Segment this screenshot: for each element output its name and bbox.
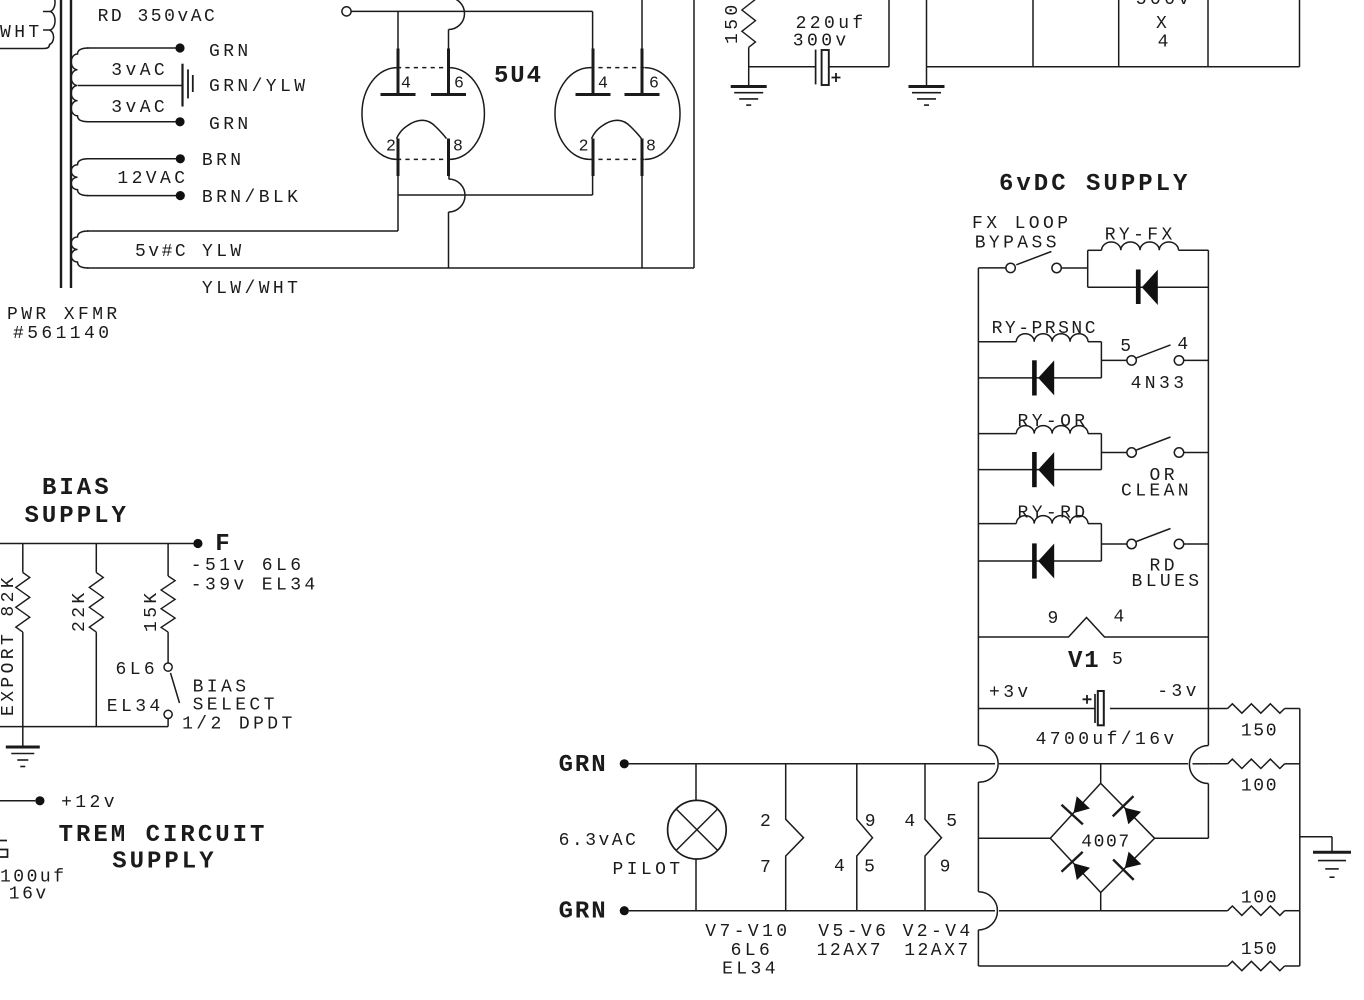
svg-text:SELECT: SELECT xyxy=(193,696,278,716)
svg-text:9: 9 xyxy=(1048,609,1062,629)
svg-text:FX LOOP: FX LOOP xyxy=(972,214,1071,234)
svg-text:GRN: GRN xyxy=(209,115,252,135)
svg-text:6.3vAC: 6.3vAC xyxy=(559,831,639,851)
svg-text:-51v 6L6: -51v 6L6 xyxy=(191,556,305,576)
svg-text:2: 2 xyxy=(579,137,589,156)
svg-text:V1: V1 xyxy=(1068,648,1101,675)
svg-text:-39v EL34: -39v EL34 xyxy=(191,576,319,596)
svg-text:YLW: YLW xyxy=(202,242,245,262)
svg-text:9: 9 xyxy=(940,858,954,878)
svg-text:4: 4 xyxy=(1158,33,1172,53)
svg-text:9: 9 xyxy=(865,812,879,832)
svg-text:V5-V6: V5-V6 xyxy=(818,922,889,942)
svg-text:5: 5 xyxy=(864,858,878,878)
svg-text:EL34: EL34 xyxy=(722,960,779,980)
svg-text:EXPORT 82K: EXPORT 82K xyxy=(0,574,19,716)
svg-text:16v: 16v xyxy=(9,885,49,905)
svg-text:V7-V10: V7-V10 xyxy=(705,922,790,942)
svg-text:4: 4 xyxy=(598,74,608,93)
svg-text:4: 4 xyxy=(401,74,411,93)
svg-text:3vAC: 3vAC xyxy=(111,61,168,81)
svg-text:8: 8 xyxy=(646,137,656,156)
svg-text:TREM CIRCUIT: TREM CIRCUIT xyxy=(59,822,268,849)
svg-text:6vDC SUPPLY: 6vDC SUPPLY xyxy=(999,171,1190,198)
svg-text:5v#C: 5v#C xyxy=(135,242,188,262)
svg-text:SUPPLY: SUPPLY xyxy=(25,503,129,530)
svg-text:12AX7: 12AX7 xyxy=(904,941,971,961)
svg-text:12VAC: 12VAC xyxy=(117,169,188,189)
svg-text:8: 8 xyxy=(453,137,463,156)
svg-text:BRN/BLK: BRN/BLK xyxy=(202,188,301,208)
svg-text:GRN: GRN xyxy=(209,42,252,62)
svg-text:100: 100 xyxy=(1241,889,1278,909)
svg-text:100: 100 xyxy=(1241,777,1278,797)
svg-text:-3v: -3v xyxy=(1157,682,1200,702)
svg-text:YLW/WHT: YLW/WHT xyxy=(202,279,301,299)
svg-text:RY-PRSNC: RY-PRSNC xyxy=(992,319,1098,339)
svg-text:5U4: 5U4 xyxy=(494,63,543,90)
svg-text:3vAC: 3vAC xyxy=(111,98,168,118)
svg-text:GRN: GRN xyxy=(559,899,608,926)
svg-text:GRN/YLW: GRN/YLW xyxy=(209,77,308,97)
svg-text:PILOT: PILOT xyxy=(613,860,684,880)
svg-text:5: 5 xyxy=(946,812,960,832)
svg-text:#561140: #561140 xyxy=(13,324,112,344)
svg-text:4: 4 xyxy=(904,812,918,832)
svg-text:4: 4 xyxy=(1177,335,1191,355)
svg-text:BYPASS: BYPASS xyxy=(975,234,1060,254)
svg-text:6L6: 6L6 xyxy=(116,660,159,680)
svg-text:6L6: 6L6 xyxy=(731,941,774,961)
svg-text:X: X xyxy=(1156,14,1170,34)
svg-text:150: 150 xyxy=(723,1,743,44)
svg-text:7: 7 xyxy=(760,858,774,878)
svg-text:GRN: GRN xyxy=(559,752,608,779)
svg-text:BIAS: BIAS xyxy=(193,678,250,698)
svg-text:2: 2 xyxy=(386,137,396,156)
svg-text:6: 6 xyxy=(454,74,464,93)
svg-text:300v: 300v xyxy=(793,32,850,52)
svg-text:+12v: +12v xyxy=(61,793,118,813)
svg-text:+3v: +3v xyxy=(989,683,1032,703)
svg-text:V2-V4: V2-V4 xyxy=(903,922,974,942)
svg-text:BIAS: BIAS xyxy=(42,475,112,502)
svg-text:4700uf/16v: 4700uf/16v xyxy=(1036,730,1178,750)
svg-text:6: 6 xyxy=(649,74,659,93)
svg-text:4: 4 xyxy=(1114,608,1128,628)
svg-text:F: F xyxy=(215,531,232,558)
svg-text:BLUES: BLUES xyxy=(1132,572,1203,592)
svg-text:12AX7: 12AX7 xyxy=(817,941,884,961)
svg-text:CLEAN: CLEAN xyxy=(1121,482,1192,502)
svg-text:2: 2 xyxy=(760,812,774,832)
svg-text:500v: 500v xyxy=(1136,0,1193,10)
svg-text:4007: 4007 xyxy=(1081,833,1131,853)
svg-text:PWR XFMR: PWR XFMR xyxy=(7,305,121,325)
svg-text:4: 4 xyxy=(834,857,848,877)
svg-text:150: 150 xyxy=(1241,940,1278,960)
svg-text:EL34: EL34 xyxy=(107,697,164,717)
svg-text:SUPPLY: SUPPLY xyxy=(112,849,216,876)
svg-text:4N33: 4N33 xyxy=(1131,374,1188,394)
svg-text:RD 350vAC: RD 350vAC xyxy=(98,7,218,27)
svg-text:BRN: BRN xyxy=(202,151,245,171)
svg-text:5: 5 xyxy=(1112,650,1126,670)
svg-text:150: 150 xyxy=(1241,722,1278,742)
svg-text:5: 5 xyxy=(1120,337,1134,357)
svg-text:15K: 15K xyxy=(142,589,162,632)
svg-text:1/2 DPDT: 1/2 DPDT xyxy=(182,715,296,735)
svg-text:WHT: WHT xyxy=(0,23,43,43)
svg-text:22K: 22K xyxy=(70,589,90,632)
